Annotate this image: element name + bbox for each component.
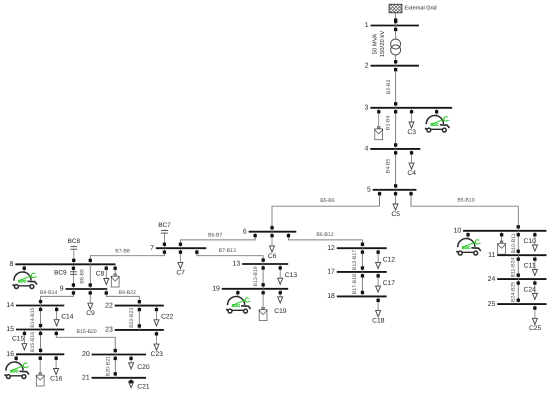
svg-text:B6-B12: B6-B12 — [316, 232, 333, 238]
svg-text:B14-B15: B14-B15 — [30, 307, 36, 327]
svg-text:C8: C8 — [96, 271, 105, 278]
svg-text:7: 7 — [150, 245, 154, 252]
svg-text:150/20 kV: 150/20 kV — [379, 31, 386, 58]
svg-text:External Grid: External Grid — [405, 6, 437, 12]
svg-text:C3: C3 — [407, 129, 416, 136]
svg-text:B5-B10: B5-B10 — [457, 198, 474, 204]
svg-text:C5: C5 — [391, 211, 400, 218]
svg-text:4: 4 — [365, 146, 369, 153]
svg-text:C4: C4 — [407, 170, 416, 177]
svg-text:C14: C14 — [61, 314, 74, 321]
svg-text:14: 14 — [6, 302, 14, 309]
svg-text:C13: C13 — [285, 272, 298, 279]
svg-text:C12: C12 — [383, 256, 396, 263]
svg-text:B9-B14: B9-B14 — [40, 290, 57, 296]
svg-text:C16: C16 — [50, 375, 63, 382]
svg-text:C21: C21 — [137, 384, 150, 391]
svg-text:21: 21 — [82, 375, 90, 382]
svg-text:SOC: SOC — [462, 245, 471, 250]
svg-text:C18: C18 — [372, 318, 385, 325]
svg-text:B11-B24: B11-B24 — [510, 257, 516, 277]
svg-text:SOC: SOC — [232, 303, 241, 308]
svg-text:SOC: SOC — [18, 278, 27, 283]
svg-text:8: 8 — [10, 261, 14, 268]
svg-text:B22-B23: B22-B23 — [129, 307, 135, 327]
svg-text:9: 9 — [60, 286, 64, 293]
svg-text:25: 25 — [488, 301, 496, 308]
svg-text:18: 18 — [327, 293, 335, 300]
svg-text:B10-B11: B10-B11 — [511, 233, 517, 253]
svg-text:B7-B8: B7-B8 — [115, 248, 130, 254]
svg-text:10: 10 — [454, 228, 462, 235]
svg-text:SOC: SOC — [430, 122, 439, 127]
svg-text:16: 16 — [6, 351, 14, 358]
svg-text:B13-B19: B13-B19 — [253, 266, 259, 286]
svg-text:C7: C7 — [176, 269, 185, 276]
svg-text:B5-B6: B5-B6 — [320, 198, 335, 204]
svg-text:C6: C6 — [268, 253, 277, 260]
svg-text:22: 22 — [105, 302, 113, 309]
svg-text:C25: C25 — [529, 325, 542, 332]
svg-text:SOC: SOC — [10, 368, 19, 373]
svg-text:20: 20 — [82, 351, 90, 358]
svg-text:B4-B5: B4-B5 — [385, 159, 391, 174]
svg-text:5: 5 — [367, 187, 371, 194]
svg-text:B17-B18: B17-B18 — [352, 274, 358, 294]
svg-text:B24-B25: B24-B25 — [510, 282, 516, 302]
svg-text:B20-B21: B20-B21 — [105, 356, 111, 376]
svg-text:23: 23 — [105, 327, 113, 334]
svg-text:BC9: BC9 — [54, 270, 67, 277]
svg-text:BC8: BC8 — [68, 238, 81, 245]
svg-text:C19: C19 — [274, 308, 287, 315]
svg-text:C22: C22 — [161, 314, 174, 321]
svg-text:1: 1 — [365, 22, 369, 29]
svg-text:C23: C23 — [151, 351, 164, 358]
svg-text:24: 24 — [488, 276, 496, 283]
svg-text:B2-B3: B2-B3 — [386, 80, 392, 95]
svg-text:3: 3 — [365, 105, 369, 112]
svg-text:B12-B17: B12-B17 — [352, 250, 358, 270]
svg-text:C11: C11 — [524, 263, 536, 270]
svg-text:B6-B7: B6-B7 — [208, 232, 223, 238]
svg-text:C24: C24 — [524, 287, 537, 294]
svg-text:15: 15 — [6, 326, 14, 333]
svg-text:13: 13 — [233, 261, 241, 268]
svg-text:C20: C20 — [137, 364, 150, 371]
svg-text:19: 19 — [212, 286, 220, 293]
svg-text:C10: C10 — [524, 238, 537, 245]
svg-text:2: 2 — [365, 62, 369, 69]
svg-text:C15: C15 — [12, 336, 25, 343]
svg-text:C17: C17 — [383, 280, 396, 287]
svg-text:B9-B22: B9-B22 — [119, 290, 136, 296]
svg-text:17: 17 — [327, 269, 335, 276]
svg-text:11: 11 — [488, 252, 495, 259]
svg-text:6: 6 — [243, 228, 247, 235]
svg-text:B15-B20: B15-B20 — [76, 329, 96, 335]
svg-text:C9: C9 — [86, 310, 95, 317]
svg-text:B3-B4: B3-B4 — [385, 116, 391, 131]
svg-text:BC7: BC7 — [158, 222, 171, 229]
svg-text:B8-B9: B8-B9 — [80, 269, 86, 284]
svg-text:50 MVA: 50 MVA — [372, 34, 379, 55]
svg-text:12: 12 — [327, 245, 335, 252]
svg-text:B15-B16: B15-B16 — [30, 332, 36, 352]
svg-text:B7-B13: B7-B13 — [219, 248, 236, 254]
